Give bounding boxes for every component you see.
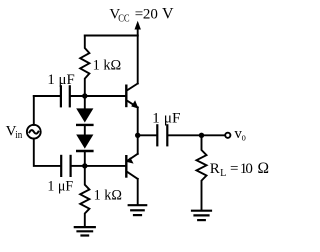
wire C2 right lead [72,165,85,167]
ground G1 [75,227,95,235]
wire Vin bottom lead [34,139,60,166]
resistor R2 1 kOhm bottom [80,166,89,226]
wire Q1 base [85,95,125,97]
svg-text:in: in [15,130,23,141]
transistor Q2 PNP [126,135,138,179]
node VCC supply arrow [135,21,141,36]
wire C3 to output terminal [168,134,224,136]
svg-text:1 μF: 1 μF [47,178,73,194]
svg-text:o: o [242,132,246,143]
capacitor C3 output 1uF plates [157,125,167,145]
wire collector feed Q1 [137,36,139,84]
svg-text:V: V [162,5,174,22]
label vo [234,126,245,144]
wire Q1 emitter to node O [137,107,139,135]
wire Q2 collector to ground [137,179,139,205]
node B junction dot [82,163,87,168]
wire D1 to D2 [84,125,86,135]
wire C1 left lead [34,95,60,97]
svg-text:20: 20 [143,6,158,22]
wire Q2 base [85,165,125,167]
svg-text:L: L [220,168,226,179]
svg-text:=: = [230,161,238,177]
source Vin sine symbol [29,130,38,133]
resistor RL 10 Ohm [197,135,207,210]
svg-text:1 μF: 1 μF [47,72,74,88]
ground G2 [129,205,147,215]
svg-text:0: 0 [245,161,253,177]
wire top rail [85,35,138,37]
diode D2 [76,135,93,152]
svg-text:1 μF: 1 μF [152,110,180,126]
resistor R1 1 kOhm top [80,36,89,97]
svg-text:1 kΩ: 1 kΩ [94,188,122,204]
label VCC = 20 V [109,5,174,24]
svg-text:Ω: Ω [258,160,270,177]
wire node A to D1 [84,96,86,109]
wire node O to C3 [138,134,157,136]
node O junction dot [135,133,140,138]
terminal vo open circle [225,133,230,138]
wire C1 right lead [71,95,85,97]
label RL value 10 Ohm [210,160,269,179]
svg-text:CC: CC [118,14,129,25]
capacitor C2 lower 1uF plates [61,156,70,176]
capacitor C1 upper 1uF plates [61,86,70,106]
svg-text:1 kΩ: 1 kΩ [93,57,122,73]
node A junction dot [82,93,87,98]
wire D2 to node B [84,151,86,166]
ground G3 [192,211,211,220]
node RL tap junction dot [199,133,204,138]
wire Vin top lead [33,96,35,125]
label Vin [6,123,23,141]
source Vin circle [27,125,41,139]
svg-text:R: R [210,161,220,177]
diode D1 [76,108,93,125]
transistor Q1 NPN [126,84,138,109]
